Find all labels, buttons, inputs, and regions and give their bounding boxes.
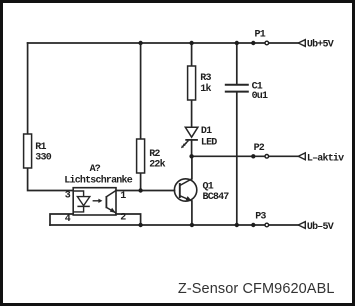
svg-text:R3: R3 [200, 73, 211, 84]
node top rail / C1 [235, 41, 239, 45]
node top rail / R2 [138, 41, 142, 45]
node L-aktiv / P2 [251, 154, 255, 158]
opto arrow [93, 200, 99, 202]
resistor R3 [188, 66, 212, 100]
wire R3 top [191, 43, 193, 66]
svg-text:Z-Sensor CFM9620ABL: Z-Sensor CFM9620ABL [178, 281, 335, 297]
resistor R1 [24, 134, 52, 168]
node D1 / collector / L-aktiv [189, 154, 193, 158]
svg-text:P2: P2 [254, 143, 265, 154]
diode D1 LED [181, 126, 217, 148]
svg-text:BC847: BC847 [203, 192, 230, 203]
svg-text:R1: R1 [35, 142, 46, 153]
wire left column [27, 43, 29, 134]
wire R2 top column [140, 43, 142, 139]
transistor Q1 BC847 [174, 179, 229, 203]
wire pin2 down [116, 214, 141, 225]
svg-text:4: 4 [65, 214, 71, 225]
node bottom rail / P3 [251, 223, 255, 227]
svg-text:L–aktiv: L–aktiv [307, 153, 344, 165]
svg-text:D1: D1 [201, 126, 212, 137]
junction dots [138, 41, 255, 227]
svg-text:0u1: 0u1 [252, 91, 268, 102]
wire top rail [28, 42, 299, 44]
node top rail / R3 [189, 41, 193, 45]
svg-text:Q1: Q1 [203, 181, 214, 192]
svg-text:P1: P1 [255, 30, 266, 41]
pin P2 pad [265, 155, 269, 159]
wire R2 bottom [140, 173, 142, 191]
svg-text:330: 330 [35, 153, 51, 164]
node top rail / P1 [251, 41, 255, 45]
svg-text:1k: 1k [200, 83, 211, 95]
svg-text:LED: LED [201, 137, 217, 148]
wire bottom rail [50, 224, 298, 226]
resistor R2 [137, 139, 166, 173]
node bottom rail / C1 [235, 223, 239, 227]
opto LED triangle [77, 197, 89, 206]
svg-text:3: 3 [65, 191, 71, 202]
wire R3 to D1 [191, 100, 193, 127]
svg-text:2: 2 [120, 213, 126, 224]
node bottom rail / emitter [190, 223, 194, 227]
capacitor C1 [225, 81, 268, 102]
opto phototransistor [105, 196, 107, 208]
svg-text:P3: P3 [255, 211, 266, 222]
svg-text:22k: 22k [149, 158, 165, 170]
pin P3 pad [265, 223, 269, 227]
wire Q1 emitter down [191, 201, 193, 225]
optocoupler U A? Lichtschranke [64, 164, 132, 225]
wire L-aktiv row [192, 155, 299, 157]
node R2 / opto pin1 / Q1 base [138, 188, 142, 192]
svg-text:Ub+5V: Ub+5V [307, 38, 334, 50]
svg-text:A?: A? [90, 164, 101, 175]
net flag Ub+5V [298, 38, 333, 50]
svg-text:1: 1 [120, 191, 126, 202]
svg-text:Ub–5V: Ub–5V [307, 221, 334, 233]
wire pin1 to Q1 base [116, 190, 175, 192]
wire pin4 wrap [50, 214, 73, 225]
node bottom rail / pin2 [138, 223, 142, 227]
wire R1 bottom to pin3 row [28, 168, 73, 191]
pin P1 pad [265, 41, 269, 45]
wire C1 column [236, 43, 238, 84]
wire Q1 collector [191, 156, 193, 179]
wire D1 cathode down [191, 140, 193, 156]
opto LED leads [73, 191, 83, 196]
net flag Ub-5V [298, 221, 333, 233]
net flag L-aktiv [298, 153, 344, 165]
svg-text:Lichtschranke: Lichtschranke [64, 174, 132, 186]
